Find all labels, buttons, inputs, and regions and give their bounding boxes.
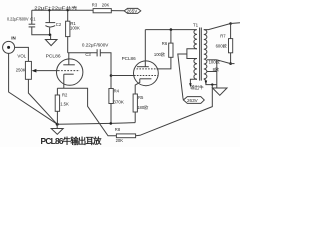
wire secondary bottom	[204, 79, 217, 85]
svg-text:100欧: 100欧	[154, 51, 166, 58]
node R7 bottom	[229, 62, 232, 65]
wire NFB to R8	[136, 85, 213, 136]
T1 core	[200, 28, 202, 81]
resistor R1 100K	[66, 10, 80, 53]
svg-text:600欧: 600欧	[216, 42, 228, 49]
tap bus	[216, 60, 218, 85]
svg-text:R4: R4	[114, 88, 120, 93]
winding phase arrow	[205, 81, 208, 85]
svg-text:R3: R3	[92, 2, 98, 7]
svg-text:180欧: 180欧	[137, 104, 149, 111]
svg-text:20K: 20K	[116, 138, 124, 143]
svg-text:输出牛: 输出牛	[190, 84, 204, 91]
tap 100ohm	[207, 58, 221, 65]
svg-text:R8: R8	[115, 127, 121, 132]
svg-text:250K: 250K	[16, 68, 26, 73]
T1 secondary winding	[204, 30, 207, 79]
node R6 top	[170, 28, 173, 31]
svg-text:R5: R5	[138, 95, 144, 100]
tap 8ohm	[207, 66, 220, 73]
resistor R7 600ohm	[216, 24, 233, 64]
wire jack to pot	[15, 47, 29, 61]
wire plate1 node	[68, 52, 97, 54]
svg-text:R2: R2	[62, 93, 68, 98]
node dot C2/top rail	[48, 9, 50, 11]
svg-text:R6: R6	[162, 41, 168, 46]
svg-text:VOL: VOL	[17, 54, 26, 59]
svg-text:IN: IN	[11, 35, 16, 40]
ground secondary	[213, 85, 228, 96]
capacitor C1	[7, 10, 51, 35]
ground (filter)	[45, 35, 57, 46]
svg-text:8欧: 8欧	[213, 66, 220, 73]
power flag 263V	[183, 97, 204, 104]
capacitor C3 0.22uF coupling	[82, 42, 109, 57]
svg-text:22μF+22μF共壳: 22μF+22μF共壳	[34, 5, 78, 12]
T1 primary winding	[187, 30, 197, 87]
wire R7 to 100ohm tap	[217, 60, 231, 64]
resistor R4 370K	[109, 88, 124, 123]
potentiometer VOL 250K	[16, 54, 37, 80]
capacitor C2 (electrolytic 22uF+22uF)	[34, 5, 78, 35]
svg-text:100欧: 100欧	[209, 58, 221, 65]
svg-text:370K: 370K	[113, 100, 124, 105]
node grid2	[110, 74, 113, 77]
wire grid2	[111, 75, 134, 77]
svg-text:R7: R7	[220, 33, 226, 38]
node dot C2 bottom	[49, 34, 52, 37]
svg-text:265V: 265V	[127, 9, 139, 14]
svg-text:0.22μF/600V: 0.22μF/600V	[82, 42, 109, 47]
wire jack ground	[9, 53, 58, 124]
svg-text:T1: T1	[193, 22, 199, 27]
T1 B+ tap wire	[178, 54, 187, 100]
svg-text:1.5K: 1.5K	[60, 101, 69, 106]
wire wiper to grid	[36, 70, 58, 72]
svg-text:100K: 100K	[70, 26, 80, 31]
resistor R8 20K feedback	[115, 127, 136, 143]
wire R7 bottom stub	[231, 63, 235, 65]
wire top B+ rail	[32, 9, 93, 11]
svg-text:PCL86牛输出耳放: PCL86牛输出耳放	[41, 136, 103, 146]
resistor R2 1.5K	[55, 88, 69, 124]
triode U1a PCL86	[46, 53, 83, 88]
svg-text:263V: 263V	[187, 98, 199, 103]
node dot R1 top	[67, 9, 69, 11]
wire secondary top to R7	[204, 24, 231, 30]
node R7 top	[229, 22, 232, 25]
wire pot ground	[28, 79, 57, 124]
resistor R5 180ohm	[133, 94, 149, 123]
node R4 bottom	[110, 122, 113, 125]
node NFB takeoff	[211, 83, 213, 85]
svg-text:20K: 20K	[102, 3, 110, 8]
input jack IN	[3, 35, 16, 53]
svg-text:PCL86: PCL86	[46, 54, 61, 60]
wire C3 to grid2/R4	[100, 53, 111, 89]
wire to edge	[231, 22, 240, 25]
wire cathode1/NFB	[57, 88, 116, 136]
svg-text:C3: C3	[85, 52, 91, 57]
power flag 265V	[124, 8, 141, 13]
resistor R3 20K	[92, 2, 112, 13]
ground main	[51, 124, 63, 134]
svg-text:C2: C2	[56, 22, 62, 27]
svg-text:C1: C1	[30, 17, 36, 22]
ground bus wire	[57, 123, 135, 125]
svg-text:PCL86: PCL86	[122, 56, 136, 61]
resistor R6 100ohm	[154, 30, 173, 69]
wire R3 to flag	[111, 10, 124, 12]
node main ground	[56, 123, 59, 126]
wire plate2 rail	[145, 29, 196, 31]
svg-text:0.22μF/600V: 0.22μF/600V	[7, 17, 29, 22]
pentode U1b PCL86	[122, 30, 159, 94]
